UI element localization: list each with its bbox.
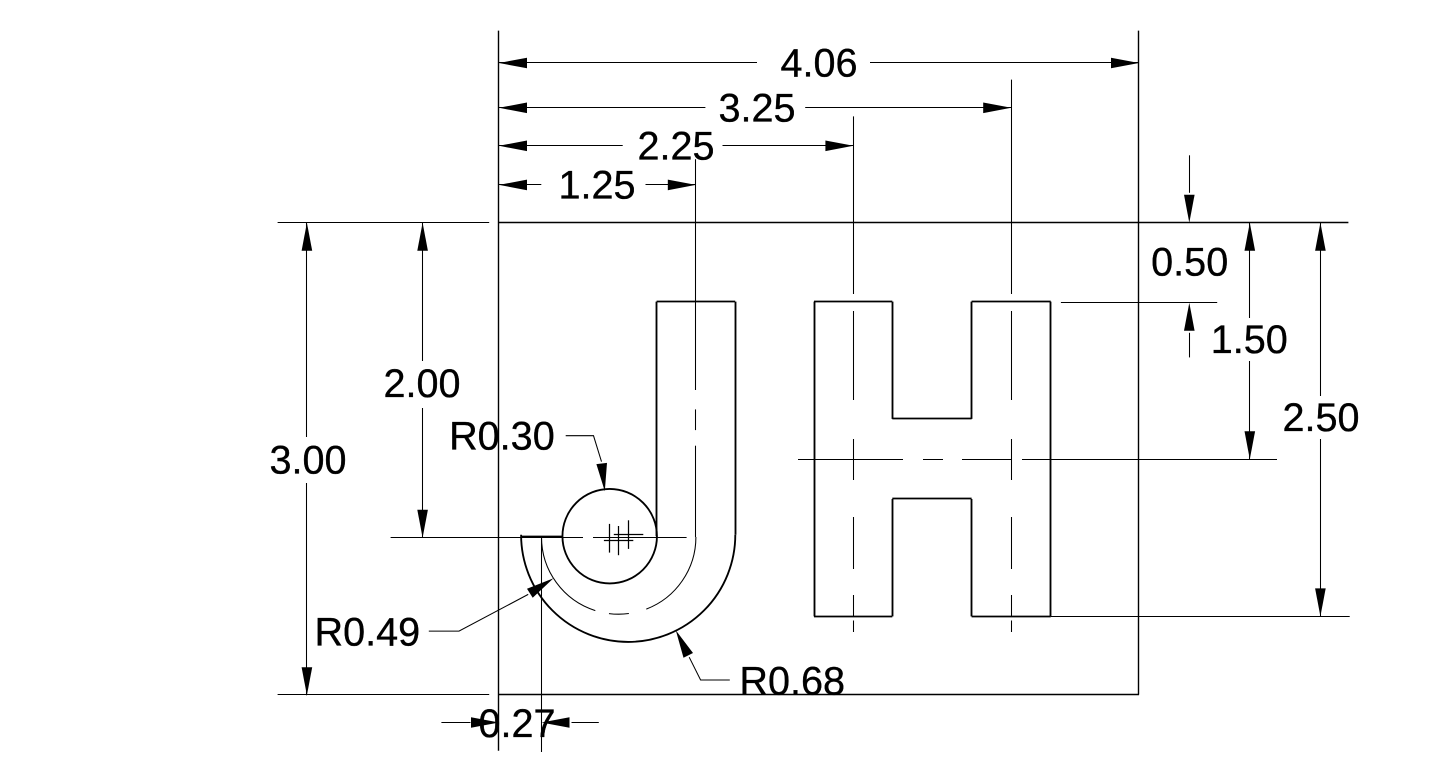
dimension 3.00 — [306, 223, 308, 437]
letter H left bar right edge upper — [892, 302, 894, 419]
dimension 1.50 — [1249, 223, 1251, 318]
dimension 4.06 — [499, 62, 757, 64]
dimension 0.50 — [1189, 155, 1191, 193]
centerline J bend dashed arc R0.49 — [542, 537, 696, 614]
dimension 2.50 — [1320, 223, 1322, 396]
centerline J stem / 1.25 extension — [695, 159, 697, 390]
svg-text:0.27: 0.27 — [478, 702, 555, 746]
part outline right edge / extension line — [1138, 31, 1140, 695]
letter H crossbar bottom — [892, 498, 971, 500]
letter H right bar left edge lower — [971, 499, 973, 616]
svg-text:0.50: 0.50 — [1151, 241, 1228, 285]
letter J stem right edge — [735, 302, 737, 535]
centerline H crossbar / 1.50 extension — [798, 459, 903, 461]
letter J hook end face — [521, 536, 562, 538]
extension line H top right / 0.50 — [1061, 302, 1217, 304]
svg-text:2.25: 2.25 — [637, 124, 714, 168]
svg-text:2.00: 2.00 — [383, 362, 460, 406]
leader R0.49 — [429, 594, 528, 631]
letter H right bar bottom — [972, 616, 1051, 618]
dimension 2.25 — [499, 145, 623, 147]
leader R0.30 — [566, 436, 602, 462]
dimension 0.27 — [441, 722, 470, 724]
svg-text:R0.49: R0.49 — [315, 610, 421, 654]
letter J outer hook arc R0.68 — [521, 535, 735, 642]
extension line H bottom right / 2.50 — [1051, 616, 1350, 618]
dimension 1.25 — [499, 184, 541, 186]
letter H left bar bottom — [814, 616, 892, 618]
centerline H left bar / 2.25 extension — [853, 116, 855, 294]
svg-text:1.50: 1.50 — [1211, 318, 1288, 362]
centerline H right bar / 3.25 extension — [1011, 80, 1013, 294]
centerline J bend horizontal / 2.00 extension — [391, 537, 583, 539]
svg-text:3.25: 3.25 — [718, 86, 795, 130]
letter H right bar right edge — [1050, 302, 1052, 617]
svg-text:2.50: 2.50 — [1282, 396, 1359, 440]
svg-text:3.00: 3.00 — [269, 438, 346, 482]
letter J stem top — [657, 301, 736, 303]
letter H right bar left edge upper — [971, 302, 973, 419]
svg-text:1.25: 1.25 — [558, 164, 635, 208]
letter H crossbar top — [892, 418, 971, 420]
part outline left edge / extension line — [498, 31, 500, 751]
letter J inner circle R0.30 — [562, 489, 657, 584]
extension line 0.27 right — [541, 537, 543, 752]
letter J stem left edge — [656, 302, 658, 537]
center marks at J bend — [609, 524, 611, 553]
leader R0.68 — [689, 657, 730, 680]
letter H left bar left edge — [814, 302, 816, 617]
svg-text:R0.30: R0.30 — [449, 414, 555, 458]
letter H right bar top — [972, 301, 1051, 303]
part outline bottom edge — [278, 694, 490, 696]
svg-text:4.06: 4.06 — [780, 42, 857, 86]
svg-text:R0.68: R0.68 — [739, 659, 845, 703]
letter H left bar top — [814, 301, 892, 303]
dimension 2.00 — [422, 223, 424, 361]
letter H left bar right edge lower — [892, 499, 894, 616]
dimension 3.25 — [499, 107, 705, 109]
part outline top edge — [278, 222, 490, 224]
